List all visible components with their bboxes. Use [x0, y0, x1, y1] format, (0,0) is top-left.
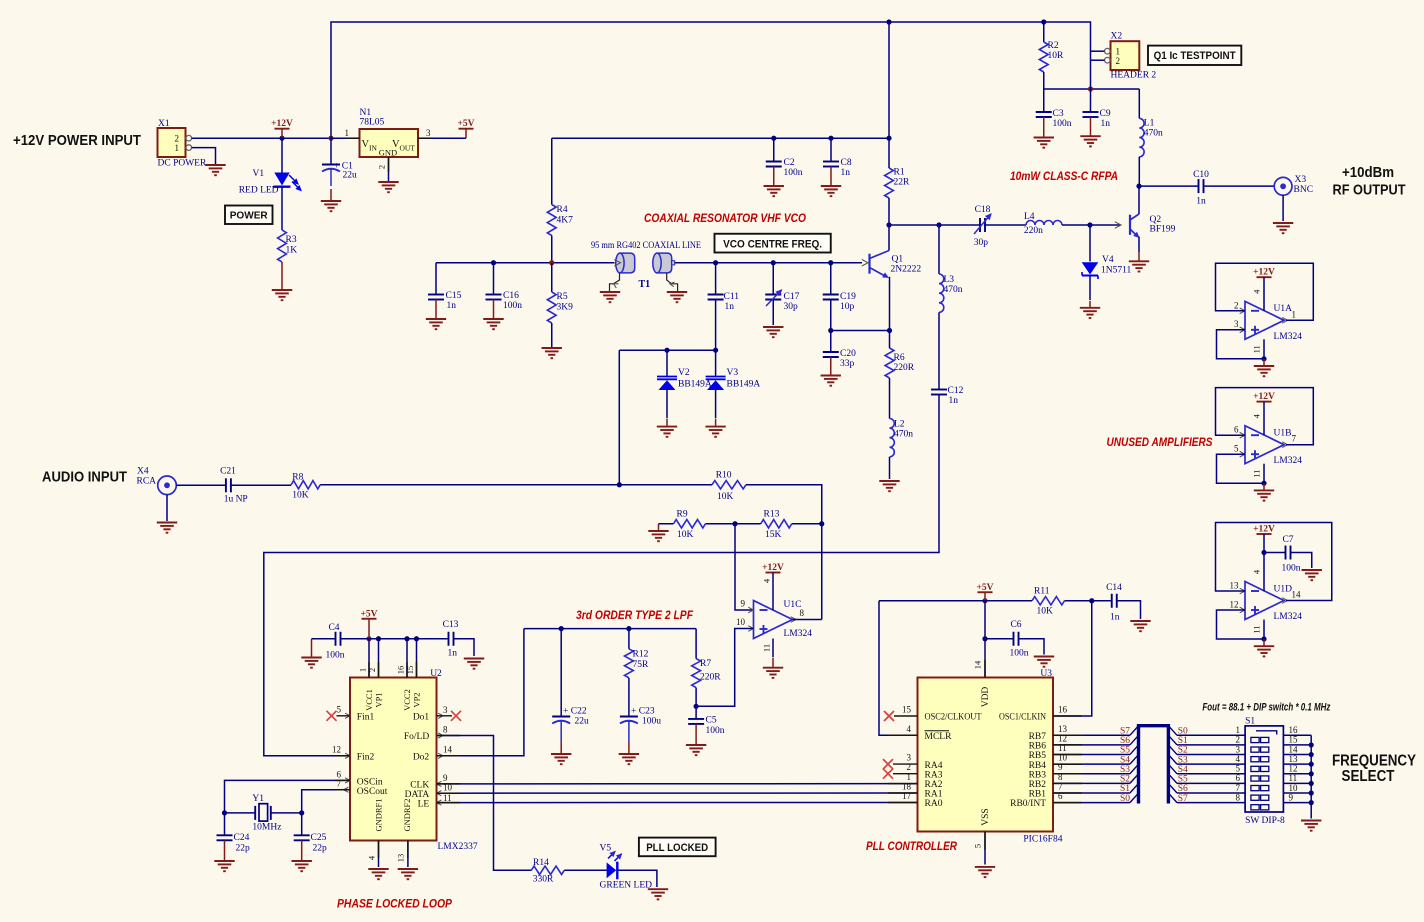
wire C5 top lead	[695, 706, 697, 719]
wire VCO node rail	[436, 262, 615, 264]
ground S1	[1301, 821, 1321, 831]
wire T1 to Q1 base rail	[675, 262, 862, 264]
label 95 mm RG402 COAXIAL LINE	[591, 241, 701, 251]
wire bus exit S5 right	[1168, 774, 1177, 784]
pin 13 of S1	[1289, 754, 1299, 764]
value 220n	[1024, 226, 1043, 236]
node R4/R5	[549, 260, 554, 265]
big label +12V POWER INPUT	[13, 132, 141, 149]
label C1	[334, 162, 353, 172]
svg-text:10K: 10K	[292, 491, 309, 501]
wire RB7 to bus	[1053, 734, 1130, 736]
svg-text:78L05: 78L05	[360, 118, 385, 128]
node R1 top	[886, 136, 891, 141]
svg-text:X3: X3	[1295, 175, 1307, 185]
op-amp U1D	[1240, 582, 1288, 620]
pin stub RB3	[1053, 773, 1082, 775]
svg-text:LM324: LM324	[1274, 612, 1303, 622]
ground C8	[821, 167, 841, 197]
ground C20	[821, 357, 841, 386]
ground X1	[205, 165, 225, 175]
node varicap drive	[617, 482, 622, 487]
pin 4 of U1D	[1252, 569, 1262, 574]
pin 7 of U1B	[1292, 434, 1297, 444]
BNC connector X3	[1274, 177, 1292, 195]
wire R8 to R10	[320, 484, 712, 486]
coax resonator T1 left barrel	[614, 253, 634, 273]
wire supply to R1	[888, 138, 890, 168]
pin 16 of U3	[1058, 705, 1068, 715]
pin name OSC2/CLKOUT	[925, 713, 982, 723]
svg-text:14: 14	[1289, 744, 1299, 754]
value 2N2222	[891, 265, 922, 275]
ground C17	[763, 327, 783, 337]
wire bus exit S7 right	[1168, 793, 1177, 803]
pin 10 of U1C	[736, 617, 746, 627]
svg-text:R7: R7	[700, 659, 711, 669]
svg-text:10K: 10K	[1037, 607, 1054, 617]
wire R12 top lead	[628, 629, 630, 649]
node C6 tap	[982, 636, 987, 641]
svg-text:C10: C10	[1193, 170, 1209, 180]
pin name RB3	[1029, 770, 1047, 780]
svg-text:13: 13	[1289, 754, 1299, 764]
pin name VSS	[981, 808, 991, 825]
ground C22	[551, 742, 571, 764]
svg-text:S6: S6	[1120, 736, 1130, 746]
svg-text:10: 10	[1289, 783, 1299, 793]
svg-text:C14: C14	[1106, 583, 1122, 593]
pin 7 of S1	[1236, 783, 1241, 793]
node C17 top	[771, 260, 776, 265]
no-connect X on OSC2	[884, 711, 918, 721]
pin 1 of X2	[1116, 47, 1121, 57]
label V4	[1102, 255, 1114, 265]
svg-text:C4: C4	[328, 623, 339, 633]
wire R9 ground stub	[659, 523, 674, 525]
svg-text:100n: 100n	[1010, 649, 1029, 659]
wire VP1 pin drop	[378, 639, 380, 678]
label S1	[1245, 717, 1255, 727]
value 10R	[1048, 51, 1065, 61]
svg-text:470n: 470n	[944, 285, 963, 295]
pin name CLK	[410, 781, 441, 791]
ground U1B	[1254, 483, 1274, 500]
wire R6 top lead	[889, 331, 891, 349]
wire C17 bottom lead	[772, 300, 774, 326]
wire X3 to ground	[1282, 195, 1284, 221]
pin stub RB6	[1053, 744, 1082, 746]
node rail R2	[1041, 19, 1046, 24]
wire R10 to feedback corner	[746, 485, 822, 620]
pin 4 of U1A	[1252, 289, 1262, 294]
pin stub RB2	[1053, 782, 1082, 784]
capacitor C15	[428, 295, 444, 300]
svg-text:1: 1	[175, 143, 180, 153]
wire RF rail	[889, 224, 960, 226]
label U1C	[784, 600, 802, 610]
svg-text:T1: T1	[639, 279, 651, 290]
capacitor C20	[823, 352, 839, 357]
pin name RB0/INT	[1010, 799, 1046, 809]
value 33p	[840, 359, 855, 369]
value 78L05	[360, 118, 385, 128]
pin name OSCout	[344, 787, 388, 797]
svg-text:SW DIP-8: SW DIP-8	[1245, 816, 1285, 826]
svg-text:VDD: VDD	[981, 687, 991, 708]
wire RB3 to bus	[1053, 773, 1130, 775]
label C11	[724, 292, 740, 302]
wire MCLR drop	[879, 601, 918, 736]
pin stub DATA	[437, 792, 461, 794]
value 1n	[447, 301, 457, 311]
svg-text:3K9: 3K9	[557, 303, 574, 313]
wire V4 to ground	[1089, 277, 1091, 301]
title 10mW CLASS-C RFPA	[1010, 171, 1118, 183]
svg-text:Q1 Ic TESTPOINT: Q1 Ic TESTPOINT	[1154, 50, 1236, 62]
svg-text:+ C23: + C23	[631, 707, 655, 717]
pin name VP2	[412, 692, 422, 707]
transistor Q2	[1115, 214, 1139, 237]
value 470n	[1144, 129, 1163, 139]
label R14	[533, 858, 549, 868]
pin 9 of U3	[1058, 762, 1063, 772]
LED V5	[607, 852, 622, 880]
wire U1A pin4	[1263, 277, 1265, 311]
svg-text:RA1: RA1	[925, 790, 943, 800]
label T1	[639, 279, 651, 290]
wire S4 to S1 pin 5	[1177, 773, 1245, 775]
label C2	[784, 158, 795, 168]
ground R3	[272, 262, 292, 300]
wire bus entry S2 left	[1130, 774, 1139, 784]
label C12	[948, 386, 964, 396]
svg-text:1: 1	[358, 668, 368, 672]
label R3	[286, 235, 297, 245]
svg-text:8: 8	[800, 608, 805, 618]
svg-text:RA2: RA2	[925, 780, 943, 790]
op-amp U1C	[748, 601, 796, 639]
svg-text:C3: C3	[1053, 109, 1064, 119]
value 1n	[725, 302, 735, 312]
ground L2	[879, 481, 899, 491]
label C16	[503, 291, 519, 301]
pin 9 of U1C	[741, 599, 746, 609]
capacitor C22	[552, 629, 570, 742]
svg-text:12: 12	[1289, 764, 1298, 774]
pin stub N1 pin3	[418, 137, 432, 139]
RCA connector X4	[158, 476, 177, 495]
pin 7 of U3	[1058, 781, 1063, 791]
pin 12 of U2	[332, 744, 341, 754]
node V2	[664, 348, 669, 353]
node S1 ground rail 10	[1309, 790, 1314, 795]
pin name MCLR	[925, 731, 953, 742]
wire R9 to R13 node	[706, 523, 736, 525]
svg-text:R2: R2	[1048, 41, 1059, 51]
label X3	[1295, 175, 1307, 185]
power +12V at U1A	[1253, 268, 1275, 278]
pin 6 of U2	[337, 769, 342, 779]
pin number 2 of N1	[377, 165, 387, 169]
power +12V at U1D	[1253, 525, 1275, 535]
pin stub LE	[437, 802, 461, 804]
svg-text:10K: 10K	[677, 530, 694, 540]
wire C15 lead	[435, 263, 437, 295]
svg-text:220R: 220R	[894, 363, 915, 373]
svg-text:100u: 100u	[642, 717, 661, 727]
pin name OSCin	[345, 778, 383, 788]
svg-text:7: 7	[1236, 783, 1241, 793]
crystal Y1	[225, 804, 302, 821]
svg-text:PLL LOCKED: PLL LOCKED	[646, 842, 708, 854]
node C5/R7	[694, 704, 699, 709]
wire RB4 to bus	[1053, 763, 1130, 765]
wire T1 right shield to ground	[667, 273, 678, 291]
pin stub RB1	[1053, 792, 1082, 794]
svg-text:11: 11	[1252, 345, 1262, 353]
value 330R	[533, 875, 554, 885]
value 1n	[1101, 119, 1111, 129]
pin 2 of X1	[175, 134, 180, 144]
wire bus entry S7 left	[1130, 726, 1139, 736]
ground R9	[648, 524, 668, 541]
ground N1	[378, 182, 398, 192]
wire rail to R2	[1043, 22, 1045, 42]
svg-text:1n: 1n	[1101, 119, 1111, 129]
svg-text:BB149A: BB149A	[678, 380, 712, 390]
pin stub RB7	[1053, 734, 1082, 736]
wire L1 to collector node	[1138, 157, 1140, 186]
svg-text:S1: S1	[1120, 784, 1130, 794]
svg-text:95 mm RG402 COAXIAL LINE: 95 mm RG402 COAXIAL LINE	[591, 241, 701, 251]
title PLL CONTROLLER	[866, 841, 958, 853]
wire GNDRF2 to ground	[407, 841, 409, 868]
svg-text:1n: 1n	[949, 396, 959, 406]
resistor R1	[885, 168, 894, 198]
svg-text:100n: 100n	[503, 301, 522, 311]
wire L2 to ground	[889, 457, 891, 479]
svg-text:CLK: CLK	[410, 781, 429, 791]
svg-text:2: 2	[1234, 300, 1239, 310]
ground C23	[619, 742, 639, 764]
pin 5 of U1B	[1234, 444, 1239, 454]
svg-text:U1B: U1B	[1274, 429, 1292, 439]
capacitor C12	[931, 390, 947, 395]
pin 11 of U1C	[762, 644, 772, 652]
wire VDD drop	[984, 601, 986, 678]
svg-text:5: 5	[1236, 764, 1241, 774]
wire +12V node to C1 node	[282, 137, 331, 139]
wire S1 pin 11 to ground rail	[1283, 782, 1311, 784]
wire bus entry S4 left	[1130, 755, 1139, 765]
svg-text:BB149A: BB149A	[727, 380, 761, 390]
pin name VOUT	[392, 139, 415, 153]
pin name RB5	[1029, 751, 1047, 761]
ground X3	[1273, 223, 1293, 233]
svg-text:4K7: 4K7	[557, 216, 574, 226]
pin 2 of S1	[1236, 735, 1241, 745]
pin 6 of U1B	[1234, 425, 1239, 435]
wire C6 to ground	[1019, 639, 1045, 655]
net label S5 left	[1120, 746, 1130, 756]
wire Q1 collector	[888, 225, 890, 251]
svg-text:5: 5	[1234, 444, 1239, 454]
capacitor C10	[1199, 179, 1204, 193]
net label S5 right	[1178, 775, 1188, 785]
wire R5 to ground	[551, 323, 553, 347]
label C21	[220, 467, 236, 477]
svg-text:C21: C21	[220, 467, 236, 477]
capacitor C16	[486, 295, 502, 300]
svg-text:RB5: RB5	[1029, 751, 1047, 761]
value 22R	[894, 178, 911, 188]
ground V4	[1080, 301, 1100, 318]
label LM324 U1A	[1274, 332, 1303, 342]
svg-text:33p: 33p	[840, 359, 855, 369]
label U3	[1040, 669, 1052, 679]
pin stub GNDRF2	[407, 841, 409, 859]
node Q2 collector / C10	[1136, 184, 1141, 189]
op-amp U1A	[1240, 301, 1288, 339]
pin 1 of S1	[1236, 725, 1241, 735]
PLL synthesizer U2 box	[350, 678, 437, 841]
svg-text:R8: R8	[292, 473, 303, 483]
wire C7 left lead	[1264, 552, 1286, 554]
svg-text:S1: S1	[1178, 736, 1188, 746]
wire R1 to RF rail	[888, 198, 890, 225]
wire emitter rail	[831, 330, 890, 332]
svg-text:R1: R1	[894, 168, 905, 178]
label C17	[784, 292, 800, 302]
wire VCC2 pin drop	[406, 639, 408, 678]
pin 5 of S1	[1236, 764, 1241, 774]
svg-text:Fin2: Fin2	[357, 753, 375, 763]
svg-text:Do1: Do1	[413, 713, 430, 723]
inductor L3	[939, 274, 944, 312]
label V1	[253, 169, 265, 179]
svg-text:BNC: BNC	[1294, 185, 1314, 195]
label X1	[158, 119, 170, 129]
node S1 ground rail 15	[1309, 742, 1314, 747]
net label S7 right	[1178, 794, 1188, 804]
wire X4 to C21	[176, 484, 226, 486]
big label RF OUTPUT	[1333, 182, 1406, 199]
pin name Do2	[413, 753, 443, 763]
net label S6 right	[1178, 784, 1188, 794]
svg-text:C9: C9	[1100, 109, 1111, 119]
value 1n	[1196, 197, 1206, 207]
pin name VIN	[362, 139, 378, 153]
svg-text:16: 16	[1058, 705, 1068, 715]
node S1 ground rail 13	[1309, 762, 1314, 767]
svg-text:C12: C12	[948, 386, 964, 396]
net label S4 right	[1178, 765, 1188, 775]
pin stub VDD	[984, 660, 986, 678]
pin 8 of U2	[443, 725, 448, 735]
label C14	[1106, 583, 1122, 593]
wire Q2 collector up	[1138, 186, 1140, 214]
svg-text:14: 14	[973, 660, 983, 669]
ground C5	[686, 724, 706, 755]
schottky diode V4	[1082, 225, 1099, 279]
wire C4 to +5V node	[312, 638, 336, 640]
node VP2	[414, 636, 419, 641]
label R11	[1034, 587, 1050, 597]
label R8	[292, 473, 303, 483]
wire U1D feedback loop	[1216, 523, 1332, 601]
ground GNDRF1	[368, 869, 388, 879]
svg-text:9: 9	[1289, 792, 1294, 802]
pin 16 of U2	[396, 666, 406, 675]
pin name RA3	[925, 770, 943, 780]
svg-text:POWER: POWER	[230, 210, 268, 222]
label U1D	[1274, 584, 1293, 594]
svg-text:COAXIAL RESONATOR VHF VCO: COAXIAL RESONATOR VHF VCO	[644, 213, 806, 225]
pin 6 of U3	[1058, 791, 1063, 801]
svg-text:L4: L4	[1024, 212, 1035, 222]
pin name VP1	[374, 692, 384, 707]
label R1	[894, 168, 905, 178]
net label S2 right	[1178, 746, 1188, 756]
wire X1 pin2 to +12V node	[192, 137, 282, 139]
svg-text:S0: S0	[1120, 794, 1130, 804]
wire U1A feedback loop	[1216, 263, 1314, 320]
net label S1 right	[1178, 736, 1188, 746]
svg-text:S1: S1	[1245, 717, 1255, 727]
pin 14 of S1	[1289, 744, 1299, 754]
wire S1 pin 12 to ground rail	[1283, 773, 1311, 775]
pin stub MCLR	[888, 734, 918, 736]
pin 14 of U2	[443, 744, 453, 754]
capacitor C14	[1112, 594, 1117, 608]
capacitor C21	[226, 478, 231, 492]
label C15	[446, 291, 462, 301]
pin name GNDRF1	[374, 798, 384, 831]
svg-text:S7: S7	[1120, 727, 1130, 737]
pin 1 of U2	[358, 668, 368, 672]
svg-text:13: 13	[396, 854, 406, 863]
pin 13 of U1D	[1230, 581, 1240, 591]
label LM324 U1B	[1274, 456, 1303, 466]
resistor R7	[692, 659, 701, 688]
node C7	[1261, 550, 1266, 555]
pin 11 of U1A	[1252, 345, 1262, 353]
pin 4 of U1B	[1252, 413, 1262, 418]
svg-text:+12V: +12V	[1253, 392, 1275, 402]
value 470n	[944, 285, 963, 295]
wire S1 pin 15 to ground rail	[1283, 744, 1311, 746]
svg-text:FREQUENCY: FREQUENCY	[1332, 753, 1417, 770]
ground U1C	[763, 658, 783, 678]
value 75R	[633, 660, 650, 670]
PIC controller U3 box	[918, 678, 1054, 832]
ground C15	[426, 300, 446, 330]
pin name GNDRF2	[402, 798, 412, 831]
pin name RB7	[1029, 732, 1047, 742]
wire bus exit S2 right	[1168, 745, 1177, 755]
ground X4	[157, 523, 177, 533]
wire C17 top lead	[772, 263, 774, 295]
svg-text:GNDRF1: GNDRF1	[374, 798, 384, 831]
pin name DATA	[405, 790, 442, 800]
wire C3 node to L1 node	[1044, 88, 1140, 90]
node U1D ground	[1261, 636, 1266, 641]
pin name GND	[379, 148, 397, 158]
pin name RB6	[1029, 742, 1047, 752]
svg-text:C13: C13	[443, 620, 459, 630]
svg-text:C2: C2	[784, 158, 795, 168]
